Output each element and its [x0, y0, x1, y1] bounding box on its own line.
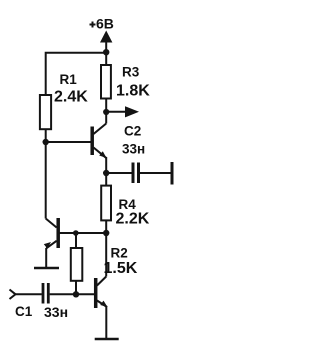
svg-text:33н: 33н: [122, 142, 145, 157]
svg-text:C2: C2: [124, 124, 141, 139]
svg-text:1.8K: 1.8K: [116, 83, 150, 100]
svg-text:R3: R3: [122, 65, 140, 80]
svg-text:2.4K: 2.4K: [54, 89, 88, 106]
svg-text:33н: 33н: [44, 304, 68, 320]
svg-text:2.2K: 2.2K: [116, 211, 150, 228]
svg-text:1.5K: 1.5K: [104, 260, 138, 277]
svg-text:R2: R2: [111, 246, 128, 261]
svg-text:R1: R1: [60, 72, 78, 87]
svg-text:C1: C1: [15, 304, 33, 319]
svg-text:6В: 6В: [96, 16, 114, 32]
